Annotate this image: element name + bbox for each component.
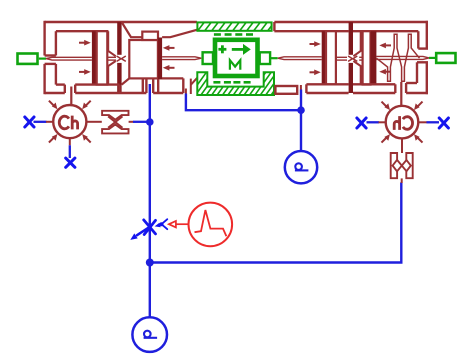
- arrow in left cylinder (upper, pointing right): [79, 40, 91, 75]
- return spring (folded ribbon zigzag): [376, 34, 419, 81]
- label Ch mirrored: [394, 116, 412, 130]
- node: junction dot at bottom run: [146, 259, 154, 267]
- rod from right piston to right rod-end: [376, 56, 429, 59]
- wire: blue vertical to mid pressure gauge: [300, 90, 302, 152]
- rod between left piston and mid piston: [107, 56, 116, 58]
- green contact dashes (top): [214, 33, 253, 36]
- case anchor flag left of green cradle: [191, 78, 197, 94]
- Ch2 left wire and X plug: [367, 121, 380, 123]
- green rod stub from motor right port: [270, 57, 277, 59]
- maroon stub left of Ch1: [46, 121, 54, 123]
- port line from left cylinder down to chamber Ch1: [70, 87, 72, 105]
- left rod-end green block: [18, 54, 47, 64]
- arrow at right-mid piston (lower, pointing right): [310, 71, 316, 73]
- left cylinder piston (dark bar + box): [92, 31, 97, 84]
- left piston rod (to green block): [46, 57, 116, 60]
- wire: blue drop from mid chamber right port: [186, 94, 301, 111]
- rod pinch through right divider: [348, 56, 357, 61]
- Ch1 bottom stub and X plug: [69, 138, 71, 145]
- chamber Ch1 circle: [53, 105, 86, 138]
- label Ch: [59, 116, 77, 130]
- bottom band of left cylinder and mid section: [75, 78, 183, 93]
- rod between right-mid piston and right cylinder piston: [336, 57, 363, 60]
- right cylinder piston (box + dark bar): [363, 31, 371, 84]
- green bottom cradle (hatched U wall): [188, 70, 294, 98]
- mid piston (box + notch + dark bar): [129, 40, 158, 78]
- right divider wall dark bar: [349, 22, 353, 55]
- wire: bottom horizontal run and rise to right orifice: [150, 182, 401, 262]
- right rod-end green block: [429, 53, 456, 63]
- Ch2 bottom stub to orifice R2: [401, 138, 403, 153]
- right cylinder chamber left wall: [353, 31, 360, 84]
- node: junction dot on gauge drop: [297, 106, 305, 114]
- maroon link Ch1 to orifice: [86, 121, 101, 123]
- motor M block: [203, 40, 271, 76]
- mid chamber funnel top: [122, 22, 197, 85]
- pressure gauge P2 (bottom): [132, 317, 167, 352]
- wire: main vertical blue line from mid-body port down to bottom gauge: [149, 84, 151, 317]
- variable valve (blue X with arrows): [130, 219, 167, 240]
- maroon stub above right gauge drop: [300, 85, 302, 90]
- arrow in motor block: [232, 48, 244, 51]
- plus sign in motor block: [218, 45, 226, 53]
- Ch2 right wire and X plug: [418, 121, 427, 123]
- rod from mid piston to motor port: [162, 57, 201, 60]
- pressure gauge P1 (mid): [285, 151, 317, 183]
- arrow in left cylinder (lower, pointing right): [79, 71, 85, 73]
- heat arrows into Ch2: [382, 102, 423, 143]
- blue wire orifice to junction: [133, 121, 149, 123]
- maroon stub above blue drop (left): [185, 89, 187, 94]
- right bottom band pieces: [275, 83, 428, 94]
- arrow at right-mid piston (upper, pointing right): [310, 41, 321, 75]
- chamber Ch2 circle (mirrored): [386, 106, 419, 139]
- arrow at right piston (lower, pointing left): [385, 71, 391, 73]
- label p (rotated): [295, 163, 309, 170]
- label p (rotated): [144, 331, 158, 338]
- heat arrows into Ch1: [49, 101, 91, 143]
- left cylinder body (maroon wall outline): [45, 21, 197, 94]
- green contact dashes (bottom): [213, 81, 250, 84]
- orifice R1 (horizontal hourglass): [102, 111, 128, 134]
- maroon stub orifice to wire: [129, 121, 134, 123]
- right-mid piston (dark bar + box): [322, 31, 326, 84]
- orifice R2 (vertical hourglass): [391, 153, 413, 178]
- green top wall (hatched bar): [196, 20, 283, 33]
- divider wall dark bar (left): [117, 22, 121, 55]
- arrow at mid piston (lower, pointing left): [169, 67, 175, 69]
- arrow at mid piston (upper, pointing left): [163, 45, 175, 71]
- node: junction dot at left Ch line: [146, 118, 154, 126]
- mid chamber funnel bottom: [122, 78, 147, 84]
- right cylinder right wall: [417, 21, 428, 94]
- left chamber right wall: [108, 31, 116, 84]
- arrow at right piston (upper, pointing left): [379, 43, 391, 75]
- rod pinch through divider wall: [117, 56, 126, 61]
- right top band: [274, 22, 428, 31]
- port line from right cylinder down to chamber Ch2: [400, 82, 402, 105]
- blue wire from plugged port X to Ch1: [34, 121, 47, 123]
- red signal link with triangle: [169, 221, 190, 227]
- label M: [230, 60, 240, 70]
- signal source circle with waveform: [189, 203, 233, 247]
- rod from motor to right-mid piston: [278, 57, 322, 60]
- plugged port X (left of Ch1): [25, 117, 34, 127]
